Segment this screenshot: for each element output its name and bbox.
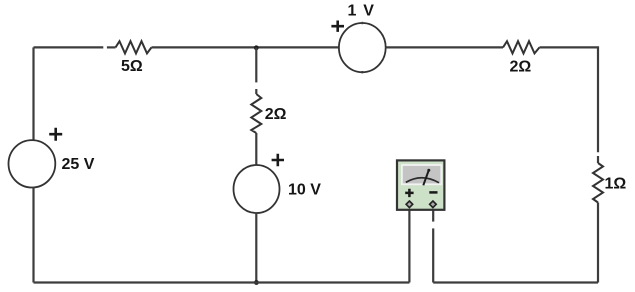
wire middle branch lower: [255, 213, 257, 283]
node B junction dot bottom: [254, 280, 259, 285]
wire right stub above R4: [597, 156, 599, 163]
wire middle branch to source: [255, 133, 257, 166]
resistor R1 5ohm: [116, 41, 152, 53]
plus sign of V1 25V: [49, 128, 62, 141]
resistor R2 2ohm vertical: [251, 94, 261, 133]
svg-text:10 V: 10 V: [288, 182, 321, 199]
wire middle branch stub above R2: [255, 89, 257, 94]
wire top right of V3: [386, 46, 503, 48]
svg-text:5Ω: 5Ω: [121, 58, 143, 75]
wire middle branch upper: [255, 47, 257, 82]
resistor R4 1ohm vertical right: [593, 163, 603, 203]
wire meter positive lead: [408, 207, 410, 283]
svg-text:2Ω: 2Ω: [510, 59, 532, 76]
voltmeter M1 needle: [423, 170, 429, 186]
wire left side upper: [32, 47, 34, 140]
wire left side lower: [32, 188, 34, 283]
svg-text:1 V: 1 V: [348, 3, 376, 20]
tick top of V3: [361, 22, 363, 24]
svg-text:25 V: 25 V: [62, 156, 95, 173]
voltage source V2 10V circle: [234, 165, 280, 213]
wire right lower: [597, 203, 599, 283]
node A junction dot top: [254, 45, 259, 50]
svg-text:1Ω: 1Ω: [605, 176, 627, 193]
plus sign of V2 10V: [272, 154, 284, 166]
wire meter negative lead lower: [432, 228, 434, 282]
wire bottom left section: [34, 281, 410, 283]
voltmeter M1 needle tip dot: [427, 169, 430, 172]
wire top stub before R1: [107, 46, 116, 48]
wire top-left horizontal: [34, 46, 104, 48]
voltage source V3 1V circle: [339, 23, 386, 72]
wire top middle: [152, 46, 340, 48]
svg-text:2Ω: 2Ω: [265, 106, 287, 123]
plus sign of V3 1V: [331, 21, 344, 32]
voltmeter M1 negative terminal diamond: [430, 201, 437, 208]
voltmeter M1 minus mark: [429, 191, 437, 194]
wire meter negative lead stub: [432, 207, 434, 222]
voltmeter M1 display: [402, 165, 441, 184]
voltmeter M1 plus mark: [405, 189, 413, 197]
wire top right corner: [540, 47, 599, 152]
voltmeter M1 positive terminal diamond: [406, 201, 413, 208]
voltmeter M1 body: [397, 160, 444, 209]
wire bottom right section: [433, 281, 598, 283]
tick bottom of V3: [361, 71, 363, 73]
voltmeter M1 scale arc: [406, 178, 439, 183]
voltage source V1 25V circle: [9, 140, 56, 187]
resistor R3 2ohm top right: [503, 41, 540, 53]
